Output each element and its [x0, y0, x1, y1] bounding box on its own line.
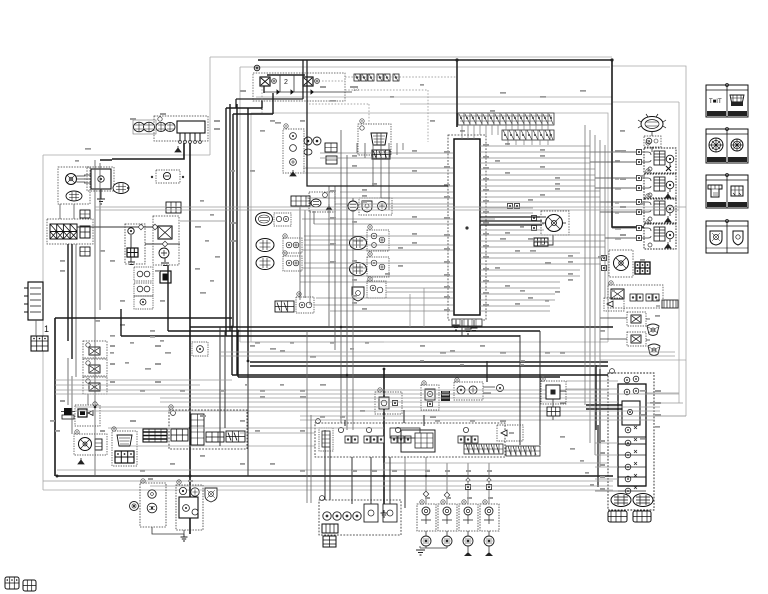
striped connector: [143, 429, 167, 442]
wire label smudges extra: [50, 110, 660, 472]
wire relay box left feeds: [226, 93, 273, 114]
handlebar switch box: [169, 410, 247, 449]
black box component: [160, 271, 171, 283]
horn 1: [647, 324, 659, 336]
connector strip C row2: [502, 130, 554, 140]
junction dots fuse line: [127, 176, 184, 189]
black grid connector right: [635, 262, 650, 274]
throttle sensor row2: [256, 238, 302, 253]
wire dashed top route: [262, 77, 457, 142]
wire starter feeds down: [121, 265, 168, 336]
tail light cluster: [130, 483, 167, 527]
wire extra center vertical: [310, 143, 403, 430]
coil pack center top: [283, 129, 337, 176]
ignition coil 1 bottom: [416, 504, 436, 555]
horn relay 1: [627, 312, 646, 326]
wire coil feeds up: [384, 457, 489, 504]
starter relay: [153, 216, 179, 265]
sensor pair mid row2: [350, 257, 390, 277]
connector oval pair left of fusebox: [133, 120, 175, 134]
horn relay 2: [627, 332, 646, 346]
wire label smudges band3: [75, 84, 660, 486]
relay assembly mid right: [608, 285, 663, 308]
sidestand diode: [497, 425, 523, 441]
wire mid bus h3: [121, 335, 520, 337]
legend box 1: [706, 84, 748, 118]
legend box 2: [706, 128, 748, 164]
wire frame inner1: [240, 67, 610, 342]
svg-text:1.0: 1.0: [353, 87, 359, 92]
legend box 4: [706, 220, 748, 254]
rectifier regulator: [84, 167, 114, 204]
coil wire pin pairs: [423, 478, 491, 498]
wire meter feeds: [566, 381, 686, 491]
ignition coil 4: [480, 504, 499, 556]
relay column left: relay A: [83, 341, 107, 358]
sensor pair mid row1: [350, 230, 390, 251]
fuse main: [156, 170, 180, 183]
injector feed pins column: [0, 0, 1, 1]
svg-text:2: 2: [284, 79, 288, 86]
wire right verticals: [585, 125, 605, 467]
fuel sender unit: [541, 381, 566, 420]
wire injector feeds: [590, 152, 636, 238]
wire frame inner3: [256, 97, 612, 104]
crank sensor: [348, 198, 392, 215]
pickup coil unit: [309, 192, 335, 212]
svg-text:1: 1: [44, 324, 49, 334]
wire lower bus h: [250, 362, 608, 366]
connector strip B row1: [458, 113, 554, 125]
relay column left: relay C: [83, 377, 107, 394]
wire clutch drop: [486, 361, 488, 382]
starter motor: [125, 224, 145, 265]
connector stack tail: [112, 431, 137, 466]
generator AC magneto: [58, 167, 90, 204]
wire mid medium lines: [220, 60, 540, 508]
throttle body top: [358, 124, 391, 159]
wire meter thick feeds: [586, 365, 622, 443]
wire band2 gray extension: [55, 352, 686, 416]
connector strip top A: [354, 74, 399, 81]
wire left bundle: [36, 160, 100, 476]
connector strip ECU bottom: [452, 319, 482, 326]
tail ground: [152, 527, 188, 541]
battery fuse panel: [47, 219, 93, 244]
sidestand relay small: [192, 342, 208, 356]
handlebar connector left row1: [256, 213, 292, 227]
injector 1: [637, 148, 677, 173]
ground ecu pins: [453, 325, 478, 334]
switch diode cluster bottom-left: [61, 402, 100, 426]
injector 3: [637, 198, 677, 223]
injector 4: [637, 224, 677, 249]
wire mid bus h1: [190, 326, 613, 328]
meter sub connectors row2: [608, 511, 651, 522]
ground main harness: [381, 510, 388, 517]
small connector above panel: [80, 210, 90, 218]
wire main top bus: [258, 60, 644, 227]
wire frame right: [600, 66, 686, 394]
wire ECU right fanout: [480, 146, 621, 311]
wire ecu bottom fanout: [456, 320, 474, 336]
radiator fan motor: [480, 204, 569, 247]
license shield icon: [205, 488, 217, 502]
pickup coil connector: [291, 196, 310, 206]
clutch switch unit: [454, 382, 504, 400]
sensor stack mid-left: [134, 267, 153, 309]
wire center drops: [383, 369, 385, 508]
ignition coil 2: [426, 504, 457, 548]
op: ECU main unit: [448, 135, 486, 320]
wire sensor drops right: [410, 288, 424, 327]
wire ecu top feed: [456, 60, 458, 127]
meter sub connectors row1: [611, 494, 653, 507]
relay column left: relay B: [83, 359, 107, 376]
wire horn feeds: [600, 318, 650, 340]
wire fuse drop left: [112, 143, 184, 159]
ignition coil 3: [459, 504, 478, 556]
ground below fusebox: [175, 146, 181, 152]
sensor row3: [256, 256, 302, 271]
connector stack below lean sensor: [322, 524, 338, 547]
diode unit: [604, 298, 624, 311]
wire left drop: [54, 318, 56, 476]
rectifier output connector: [113, 183, 129, 194]
wire bottom main: [57, 475, 613, 477]
wire relay to ecu main: [307, 104, 448, 186]
corner connector icons: [5, 577, 36, 591]
main fuse connector: [31, 336, 48, 351]
wire long horizontals: [43, 207, 686, 486]
wire frame outer: [43, 57, 613, 490]
legend box 3: [706, 174, 748, 209]
wire top-left thick L bends: [55, 104, 248, 375]
wire lean cluster drops: [307, 331, 311, 503]
relay box 1 top-left dashed: [236, 60, 352, 108]
svg-text:T■IT: T■IT: [709, 99, 722, 105]
fuse 2 grid: [166, 202, 181, 213]
wire starter links: [77, 224, 180, 265]
component id circles: [75, 119, 650, 504]
main switch solid outline: [345, 410, 435, 452]
wire starter branch: [180, 220, 226, 222]
horn 2: [648, 344, 660, 356]
wire fuse drop long: [189, 143, 191, 534]
injector 2: [637, 174, 677, 199]
main switch cluster box: [315, 419, 505, 457]
wire fuse box drops: [357, 143, 390, 210]
small connector below panel: [80, 247, 90, 256]
wire label smudges: [60, 86, 661, 499]
wire mid bus h2: [168, 330, 540, 332]
wire center vertical bundle: [300, 130, 347, 430]
fuel pump assembly: [638, 114, 666, 152]
wire mid thick band2: [232, 327, 608, 377]
speed sensor: [421, 385, 450, 410]
sensor pair mid row3: [352, 281, 386, 301]
long pin strip right of switch box: [506, 446, 540, 456]
lean angle sensor cluster bottom-left-center: [319, 496, 401, 535]
wire frame inner2: [251, 113, 608, 342]
brake light unit: [176, 485, 203, 530]
wire battery mains: [68, 244, 72, 359]
flasher relay: [74, 434, 107, 464]
sub motor circle: [602, 250, 634, 277]
wire ECU left fanout: [300, 153, 453, 311]
battery left edge: [24, 282, 49, 334]
fuse box assembly: [154, 116, 208, 143]
sensor above switch: TPS sub: [375, 392, 402, 414]
connector pair top right of horn: [656, 300, 678, 308]
wire strip B to C ticks: [462, 125, 548, 145]
meter assembly box: [595, 369, 654, 510]
bottom connector strip center: [275, 297, 314, 313]
